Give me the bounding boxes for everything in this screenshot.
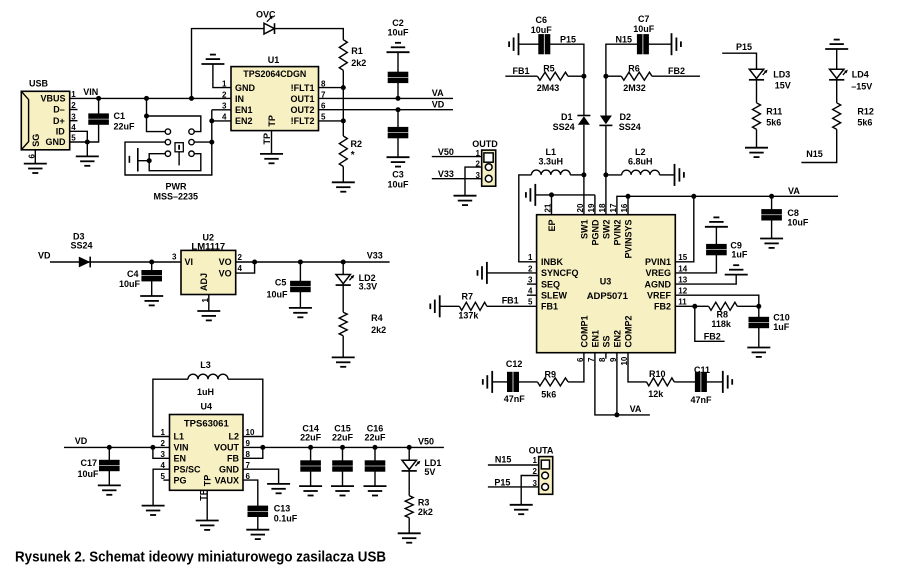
svg-text:!FLT1: !FLT1 bbox=[291, 83, 315, 93]
capacitor C1 22uF bbox=[89, 98, 135, 131]
svg-text:GND: GND bbox=[235, 83, 256, 93]
svg-text:VD: VD bbox=[75, 436, 88, 446]
wire USB pin4 ID to GND junction bbox=[70, 131, 88, 142]
wire U1 FLT1 to R1 bbox=[319, 87, 344, 89]
junction EN2/VA bbox=[614, 412, 619, 417]
caption Rysunek 2 bbox=[15, 549, 386, 566]
ground under C10 bbox=[747, 348, 770, 357]
wire D1 to L1 junction bbox=[583, 125, 585, 175]
node FB2 stub bbox=[695, 306, 725, 341]
wire VREG pin14 to C9 bbox=[675, 255, 716, 273]
svg-text:GND: GND bbox=[219, 464, 240, 474]
svg-text:3.3V: 3.3V bbox=[359, 282, 378, 292]
svg-text:1: 1 bbox=[528, 253, 533, 262]
svg-text:VAUX: VAUX bbox=[215, 475, 239, 485]
ground under OUTA bbox=[510, 505, 533, 514]
svg-text:1: 1 bbox=[476, 149, 481, 158]
svg-text:P15: P15 bbox=[736, 42, 752, 52]
svg-text:R10: R10 bbox=[649, 369, 666, 379]
junction C3/VD bbox=[396, 107, 401, 112]
diode D1 SS24 bbox=[553, 112, 591, 132]
svg-text:10uF: 10uF bbox=[387, 27, 409, 37]
svg-text:2: 2 bbox=[161, 439, 166, 448]
junction FB/VOUT bbox=[260, 445, 265, 450]
ground left of R7 bbox=[430, 295, 439, 317]
wire VA line top right bbox=[628, 186, 838, 196]
svg-text:U4: U4 bbox=[201, 402, 213, 412]
wire EN2 pin9 bbox=[616, 353, 618, 415]
LED LD4 -15V bbox=[829, 49, 872, 103]
svg-text:TP: TP bbox=[262, 133, 272, 145]
svg-text:C7: C7 bbox=[638, 14, 650, 24]
svg-text:12: 12 bbox=[678, 287, 687, 296]
LED LD3 15V bbox=[749, 69, 791, 103]
junction C16/V50 bbox=[373, 445, 378, 450]
svg-text:V33: V33 bbox=[438, 169, 454, 179]
ground under C16 bbox=[364, 486, 387, 495]
wire P15 to D1 column bbox=[550, 34, 584, 62]
svg-text:L3: L3 bbox=[200, 360, 211, 370]
svg-text:C17: C17 bbox=[80, 458, 97, 468]
svg-text:17: 17 bbox=[609, 203, 618, 212]
svg-text:22uF: 22uF bbox=[332, 433, 354, 443]
node N15 wire bbox=[606, 34, 638, 62]
node VIN bbox=[83, 87, 98, 97]
svg-text:10uF: 10uF bbox=[387, 180, 409, 190]
ground under OUTD bbox=[454, 196, 477, 205]
wire SYNCFQ pin2 to ground bbox=[487, 272, 537, 274]
svg-text:2: 2 bbox=[533, 467, 538, 476]
wire VIN rail USB to U1 IN bbox=[70, 97, 231, 99]
IC U4 TPS63061 bbox=[161, 402, 255, 491]
svg-text:C8: C8 bbox=[787, 208, 799, 218]
svg-text:EN: EN bbox=[174, 454, 187, 464]
wire D1 column upper bbox=[583, 62, 585, 116]
wire OUTA pin2 to ground bbox=[521, 476, 539, 505]
wire USB GND to ground bbox=[86, 142, 88, 156]
svg-text:COMP2: COMP2 bbox=[623, 315, 633, 347]
svg-text:13: 13 bbox=[678, 276, 687, 285]
svg-text:SS24: SS24 bbox=[71, 241, 93, 251]
svg-text:SS24: SS24 bbox=[619, 122, 641, 132]
capacitor C3 10uF bbox=[387, 110, 409, 190]
svg-text:SS24: SS24 bbox=[553, 122, 575, 132]
resistor R12 5k6 bbox=[801, 103, 874, 163]
ground under C13 bbox=[246, 530, 269, 539]
junction C15/V50 bbox=[340, 445, 345, 450]
diode D2 SS24 bbox=[599, 112, 640, 132]
svg-text:22uF: 22uF bbox=[300, 433, 322, 443]
junction USB GND node bbox=[85, 140, 90, 145]
capacitor C4 10uF bbox=[119, 262, 162, 296]
wire SW2 pin18 bbox=[605, 175, 607, 215]
svg-text:OUTA: OUTA bbox=[529, 446, 554, 456]
wire VIN to EN jog bbox=[153, 447, 170, 458]
node VA bbox=[432, 88, 444, 98]
svg-text:22uF: 22uF bbox=[114, 121, 136, 131]
svg-text:EN1: EN1 bbox=[235, 105, 253, 115]
node V50 wire to OUTD bbox=[432, 147, 482, 157]
svg-text:VO: VO bbox=[219, 257, 232, 267]
svg-text:FB1: FB1 bbox=[502, 296, 519, 306]
svg-text:IN: IN bbox=[235, 94, 244, 104]
svg-text:FB2: FB2 bbox=[654, 302, 671, 312]
ground under U4 GND bbox=[267, 484, 290, 493]
capacitor C10 1uF bbox=[749, 306, 790, 347]
svg-text:2: 2 bbox=[222, 91, 227, 100]
svg-text:R9: R9 bbox=[545, 369, 557, 379]
svg-text:OUTD: OUTD bbox=[472, 139, 498, 149]
resistor R1 2k2 bbox=[339, 40, 366, 88]
svg-text:PGND: PGND bbox=[590, 219, 600, 246]
svg-text:R11: R11 bbox=[766, 107, 782, 117]
junction L2/SW2 bbox=[603, 172, 608, 177]
wire D2 column upper bbox=[605, 62, 607, 116]
junction R8/C10 bbox=[756, 304, 761, 309]
node VD bbox=[432, 100, 445, 110]
svg-text:VIN: VIN bbox=[174, 443, 189, 453]
IC U2 LM1117 bbox=[172, 233, 242, 303]
switch PWR MSS-2235 bbox=[125, 98, 214, 201]
wire OVC left bbox=[192, 29, 265, 99]
svg-text:VI: VI bbox=[185, 257, 194, 267]
svg-text:VA: VA bbox=[788, 186, 800, 196]
junction C2/VA bbox=[396, 96, 401, 101]
junction FB2/R8 bbox=[692, 304, 697, 309]
wire FB2 pin11 bbox=[675, 305, 695, 307]
svg-text:V50: V50 bbox=[418, 436, 434, 446]
svg-text:2k2: 2k2 bbox=[371, 325, 386, 335]
ground under U4 PS/SC bbox=[142, 506, 165, 515]
svg-text:10: 10 bbox=[246, 428, 255, 437]
wire EP/PGND to ground bbox=[535, 195, 595, 215]
wire V33 rail bbox=[236, 250, 390, 262]
svg-text:EN2: EN2 bbox=[235, 116, 253, 126]
svg-text:2: 2 bbox=[476, 160, 481, 169]
svg-text:N15: N15 bbox=[495, 455, 512, 465]
svg-text:VIN: VIN bbox=[83, 87, 98, 97]
ground under C5 bbox=[289, 308, 312, 317]
ground left of C6 bbox=[509, 33, 518, 55]
svg-text:VO: VO bbox=[219, 268, 232, 278]
capacitor C2 10uF bbox=[387, 18, 409, 98]
svg-text:47nF: 47nF bbox=[691, 395, 713, 405]
capacitor C12 47nF bbox=[492, 359, 525, 404]
svg-text:INBK: INBK bbox=[541, 257, 563, 267]
ground under U1 TP bbox=[260, 154, 283, 163]
svg-text:C6: C6 bbox=[536, 15, 548, 25]
svg-text:SLEW: SLEW bbox=[541, 290, 568, 300]
svg-text:C10: C10 bbox=[773, 313, 790, 323]
svg-text:ADJ: ADJ bbox=[199, 273, 209, 291]
svg-text:EN2: EN2 bbox=[612, 330, 622, 348]
svg-text:FB1: FB1 bbox=[541, 302, 558, 312]
junction R6/D2 bbox=[603, 74, 608, 79]
svg-text:2M43: 2M43 bbox=[537, 83, 560, 93]
node VA stub label bbox=[630, 404, 642, 414]
svg-text:ID: ID bbox=[56, 126, 66, 136]
svg-text:–15V: –15V bbox=[851, 82, 872, 92]
svg-text:AGND: AGND bbox=[645, 279, 672, 289]
ground under C17 bbox=[98, 485, 121, 494]
svg-text:C13: C13 bbox=[274, 504, 291, 514]
junction LD2/V33 bbox=[341, 260, 346, 265]
junction VIN/EN bbox=[150, 445, 155, 450]
IC U1 TPS2064CDGN bbox=[222, 55, 326, 131]
svg-text:FB2: FB2 bbox=[668, 66, 685, 76]
svg-text:2M32: 2M32 bbox=[623, 83, 646, 93]
ground above LD4 bbox=[825, 40, 848, 49]
wire U4 FB jog bbox=[243, 447, 263, 458]
inductor L3 1uH bbox=[188, 360, 228, 397]
svg-text:0.1uF: 0.1uF bbox=[274, 514, 298, 524]
capacitor C9 1uF bbox=[707, 227, 748, 260]
svg-text:3: 3 bbox=[222, 102, 227, 111]
resistor R10 12k bbox=[647, 369, 675, 399]
wire FLT1 junction down to FLT2 bbox=[342, 88, 344, 121]
ground above AGND bbox=[725, 265, 748, 274]
wire SLEW pin4 stub bbox=[527, 294, 537, 296]
svg-text:10uF: 10uF bbox=[266, 290, 288, 300]
ground right of L2 bbox=[660, 164, 684, 186]
ground under C14 bbox=[299, 486, 322, 495]
junction PWR/VIN bbox=[144, 96, 149, 101]
node P15 wire to LD3 bbox=[722, 42, 756, 69]
resistor R11 5k6 bbox=[753, 103, 783, 148]
svg-text:C4: C4 bbox=[127, 269, 139, 279]
wire FB1 to R5 bbox=[505, 66, 537, 76]
svg-text:SG: SG bbox=[31, 134, 41, 147]
wire L3 right to U4 L2 bbox=[228, 379, 263, 436]
svg-text:VBUS: VBUS bbox=[40, 93, 65, 103]
resistor R5 2M43 bbox=[537, 64, 584, 93]
connector OUTD bbox=[472, 139, 498, 186]
ground under C4 bbox=[140, 296, 163, 305]
wire SEQ pin3 stub bbox=[527, 283, 537, 285]
svg-text:R4: R4 bbox=[371, 313, 383, 323]
svg-text:PVIN2: PVIN2 bbox=[612, 220, 622, 246]
svg-text:SYNCFQ: SYNCFQ bbox=[541, 268, 579, 278]
wire U4 VAUX to C13 bbox=[243, 480, 258, 506]
svg-text:20: 20 bbox=[576, 203, 585, 212]
ground left of C12 bbox=[483, 371, 492, 393]
svg-text:10uF: 10uF bbox=[119, 279, 141, 289]
capacitor C17 10uF bbox=[77, 447, 119, 485]
svg-text:5V: 5V bbox=[424, 467, 435, 477]
svg-text:11: 11 bbox=[678, 298, 687, 307]
wire FB1 pin5 bbox=[487, 296, 537, 307]
ground under C8 bbox=[760, 239, 783, 248]
resistor R2 * bbox=[339, 121, 362, 182]
wire C12 to R9 bbox=[519, 381, 538, 383]
junction OVC/VIN bbox=[189, 96, 194, 101]
svg-text:USB: USB bbox=[29, 79, 49, 89]
svg-text:4: 4 bbox=[238, 264, 243, 273]
svg-text:U1: U1 bbox=[268, 55, 280, 65]
resistor R6 2M32 bbox=[606, 64, 700, 93]
wire USB pin5 GND bbox=[70, 141, 88, 143]
svg-text:5k6: 5k6 bbox=[766, 118, 781, 128]
wire PVIN1 pin15 bbox=[675, 196, 694, 261]
svg-text:SEQ: SEQ bbox=[541, 279, 560, 289]
wire U1 TP pin bbox=[262, 131, 272, 154]
junction C5/V33 bbox=[298, 260, 303, 265]
wire PVIN2 jog bbox=[617, 196, 628, 214]
svg-text:VA: VA bbox=[432, 88, 444, 98]
ground under R11 bbox=[745, 148, 768, 157]
ground under R3 bbox=[398, 533, 421, 542]
svg-text:5k6: 5k6 bbox=[541, 390, 556, 400]
svg-text:47nF: 47nF bbox=[504, 394, 526, 404]
ground above C9 bbox=[705, 217, 728, 226]
svg-text:4: 4 bbox=[222, 113, 227, 122]
junction LD1/V50 bbox=[407, 445, 412, 450]
svg-text:P15: P15 bbox=[494, 478, 510, 488]
wire OVC right to R1 bbox=[275, 29, 344, 40]
ground under U4 TP bbox=[196, 521, 219, 530]
capacitor C16 22uF bbox=[364, 423, 386, 486]
node N15 wire to OUTA bbox=[488, 455, 539, 466]
svg-text:VREF: VREF bbox=[647, 290, 672, 300]
svg-text:PVINSYS: PVINSYS bbox=[623, 220, 633, 259]
junction PVINSYS/VA bbox=[626, 194, 631, 199]
junction R5/D1 bbox=[581, 74, 586, 79]
svg-text:2: 2 bbox=[238, 253, 243, 262]
junction C17/VD bbox=[107, 445, 112, 450]
junction R2/FLT2 bbox=[341, 118, 346, 123]
wire USB pin3 D+ stub bbox=[70, 120, 78, 122]
svg-text:PS/SC: PS/SC bbox=[174, 464, 202, 474]
svg-text:EN1: EN1 bbox=[590, 330, 600, 348]
svg-text:L2: L2 bbox=[635, 147, 646, 157]
svg-text:SW2: SW2 bbox=[601, 220, 611, 240]
junction EP bbox=[549, 192, 554, 197]
junction R1/FLT1 bbox=[341, 85, 346, 90]
junction C4/VD bbox=[149, 260, 154, 265]
svg-text:LD4: LD4 bbox=[852, 70, 869, 80]
ground under USB GND bbox=[76, 156, 99, 165]
svg-text:C11: C11 bbox=[694, 365, 710, 375]
capacitor C11 47nF bbox=[691, 365, 713, 405]
wire VA rail from U1 OUT1 bbox=[319, 97, 454, 99]
svg-text:COMP1: COMP1 bbox=[579, 315, 589, 347]
wire D2 to L2 junction bbox=[605, 125, 607, 174]
svg-text:15: 15 bbox=[678, 253, 687, 262]
svg-text:VA: VA bbox=[630, 404, 642, 414]
svg-text:ADP5071: ADP5071 bbox=[587, 291, 629, 302]
svg-text:TP: TP bbox=[203, 475, 213, 487]
svg-text:15V: 15V bbox=[775, 81, 791, 91]
wire R9 to COMP1 pin6 bbox=[568, 353, 584, 382]
svg-text:SW1: SW1 bbox=[579, 220, 589, 240]
svg-text:16: 16 bbox=[620, 203, 629, 212]
junction C14/V50 bbox=[308, 445, 313, 450]
svg-text:SS: SS bbox=[601, 335, 611, 347]
ground under R2 bbox=[332, 182, 355, 191]
svg-text:MSS–2235: MSS–2235 bbox=[154, 191, 199, 201]
svg-text:C12: C12 bbox=[506, 359, 523, 369]
capacitor C6 10uF bbox=[519, 15, 553, 54]
svg-text:OUT2: OUT2 bbox=[290, 105, 314, 115]
svg-text:1uF: 1uF bbox=[773, 322, 790, 332]
wire VD to U2 bbox=[38, 251, 181, 263]
wire U4 TP pin bbox=[198, 489, 208, 520]
junction C1/VIN bbox=[96, 96, 101, 101]
svg-text:Rysunek 2. Schemat ideowy mini: Rysunek 2. Schemat ideowy miniaturowego … bbox=[15, 549, 386, 566]
wire GND junction to C1 bottom bbox=[87, 124, 98, 142]
junction PVIN1/VA bbox=[691, 194, 696, 199]
junction C8/VA bbox=[769, 194, 774, 199]
capacitor C13 0.1uF bbox=[248, 504, 298, 530]
svg-text:14: 14 bbox=[678, 264, 687, 273]
svg-text:C3: C3 bbox=[392, 170, 404, 180]
svg-text:VD: VD bbox=[432, 100, 445, 110]
wire AGND pin13 to ground bbox=[675, 275, 736, 285]
svg-text:1uF: 1uF bbox=[731, 250, 748, 260]
wire VD rail from U1 OUT2 bbox=[319, 109, 454, 111]
svg-text:D2: D2 bbox=[620, 112, 632, 122]
ground above U1 GND bbox=[201, 55, 224, 64]
wire U4 PG stub bbox=[163, 479, 169, 481]
svg-text:118k: 118k bbox=[711, 319, 732, 329]
svg-text:12k: 12k bbox=[648, 389, 664, 399]
svg-text:PWR: PWR bbox=[166, 182, 187, 192]
svg-text:10uF: 10uF bbox=[77, 469, 99, 479]
svg-text:3: 3 bbox=[533, 479, 538, 488]
svg-text:1: 1 bbox=[533, 456, 538, 465]
ground under R4 bbox=[332, 357, 355, 366]
wire PVINSYS pin16 bbox=[627, 196, 629, 214]
svg-text:FB2: FB2 bbox=[704, 331, 721, 341]
svg-text:TPS2064CDGN: TPS2064CDGN bbox=[243, 69, 306, 80]
svg-text:R12: R12 bbox=[857, 107, 874, 117]
wire C11 to ground bbox=[706, 381, 722, 383]
svg-text:1uH: 1uH bbox=[197, 387, 214, 397]
wire V50 rail from U4 VOUT bbox=[243, 436, 444, 447]
LED LD1 5V bbox=[402, 447, 442, 495]
ground right of C11 bbox=[723, 371, 732, 393]
wire U4 PS/SC to ground bbox=[153, 469, 169, 505]
capacitor C15 22uF bbox=[332, 423, 354, 486]
svg-text:R7: R7 bbox=[462, 292, 474, 302]
node N15 label at R12 bbox=[806, 149, 823, 159]
svg-text:137k: 137k bbox=[458, 311, 479, 321]
wire U1 GND pin1 bbox=[213, 64, 231, 88]
svg-text:2k2: 2k2 bbox=[351, 58, 366, 68]
svg-text:5k6: 5k6 bbox=[857, 118, 872, 128]
node P15 wire to OUTA bbox=[488, 478, 539, 488]
svg-text:10uF: 10uF bbox=[531, 25, 553, 35]
wire USB pin6 SG bbox=[34, 150, 36, 164]
wire R10 to C11 bbox=[674, 381, 695, 383]
svg-text:1: 1 bbox=[161, 428, 166, 437]
svg-text:N15: N15 bbox=[806, 149, 823, 159]
svg-text:P15: P15 bbox=[560, 34, 576, 44]
svg-text:3: 3 bbox=[161, 450, 166, 459]
svg-text:EP: EP bbox=[547, 220, 557, 232]
resistor R7 137k bbox=[440, 292, 487, 321]
svg-text:D+: D+ bbox=[53, 116, 65, 126]
svg-text:3: 3 bbox=[528, 276, 533, 285]
LED LD2 3.3V bbox=[336, 262, 378, 312]
svg-text:PG: PG bbox=[174, 475, 187, 485]
resistor R3 2k2 bbox=[405, 496, 433, 534]
capacitor C14 22uF bbox=[300, 423, 322, 486]
LED OVC bbox=[256, 10, 276, 35]
svg-text:TP: TP bbox=[267, 115, 277, 127]
node V33 wire to OUTD bbox=[432, 169, 482, 179]
connector USB bbox=[21, 79, 76, 159]
